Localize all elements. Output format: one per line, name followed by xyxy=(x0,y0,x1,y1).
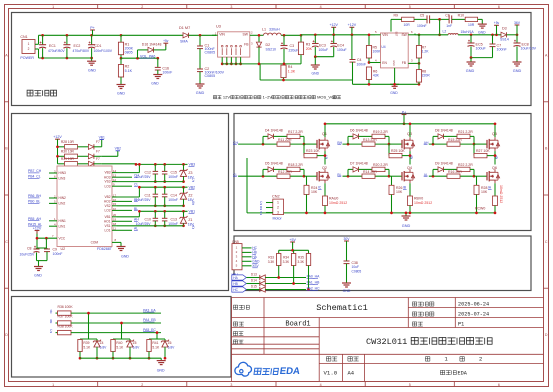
svg-text:C0805: C0805 xyxy=(205,74,216,78)
svg-text:HIN1: HIN1 xyxy=(59,219,66,223)
svg-text:1: 1 xyxy=(52,383,54,387)
svg-text:VIN: VIN xyxy=(382,33,388,37)
svg-text:GND: GND xyxy=(34,274,42,278)
svg-text:220uF: 220uF xyxy=(289,49,299,53)
svg-text:100nF: 100nF xyxy=(53,252,63,256)
svg-text:6: 6 xyxy=(498,383,500,387)
svg-text:SS14: SS14 xyxy=(500,38,509,42)
svg-text:R23 10K: R23 10K xyxy=(306,149,320,153)
svg-text:15uH/1A: 15uH/1A xyxy=(461,30,475,34)
svg-text:GND: GND xyxy=(343,289,351,293)
svg-text:+12V: +12V xyxy=(329,23,338,27)
svg-text:C0805: C0805 xyxy=(352,269,362,273)
svg-text:EC1: EC1 xyxy=(49,44,56,48)
svg-text:20K: 20K xyxy=(306,47,313,51)
svg-text:5.1K: 5.1K xyxy=(116,345,124,349)
svg-text:Z1: Z1 xyxy=(188,218,192,222)
svg-text:SMA: SMA xyxy=(180,40,188,44)
svg-text:100nF: 100nF xyxy=(168,175,178,179)
svg-text:5.1K: 5.1K xyxy=(125,69,133,73)
svg-text:VB3: VB3 xyxy=(104,171,110,175)
svg-text:GND: GND xyxy=(151,82,159,86)
svg-text:Q4: Q4 xyxy=(407,166,412,170)
svg-text:FD6288T: FD6288T xyxy=(97,247,113,251)
svg-text:D14: D14 xyxy=(251,279,257,283)
svg-text:R6: R6 xyxy=(373,69,378,73)
svg-text:5.1K: 5.1K xyxy=(152,345,160,349)
svg-text:R37 100K: R37 100K xyxy=(58,315,74,319)
svg-text:P+: P+ xyxy=(402,110,406,114)
svg-text:R9: R9 xyxy=(394,14,399,18)
svg-text:16: 16 xyxy=(113,198,117,202)
svg-text:R40: R40 xyxy=(116,341,122,345)
svg-text:GND: GND xyxy=(513,69,522,73)
svg-text:GND: GND xyxy=(466,69,475,73)
svg-text:PB5_AH: PB5_AH xyxy=(28,217,42,221)
svg-text:R12 22R: R12 22R xyxy=(278,170,292,174)
svg-text:BH: BH xyxy=(337,141,342,145)
svg-text:EDA: EDA xyxy=(279,366,301,377)
svg-text:R41: R41 xyxy=(152,341,158,345)
svg-text:D: D xyxy=(5,333,8,337)
svg-text:SW: SW xyxy=(401,33,407,37)
svg-text:470uF/80V: 470uF/80V xyxy=(48,49,65,53)
svg-text:VB2: VB2 xyxy=(115,147,121,151)
svg-text:R4: R4 xyxy=(288,65,293,69)
svg-text:CL: CL xyxy=(134,183,138,187)
svg-text:D7 1N4148: D7 1N4148 xyxy=(350,162,368,166)
svg-text:VS1: VS1 xyxy=(104,224,110,228)
svg-text:Z5: Z5 xyxy=(133,341,137,345)
svg-text:GND: GND xyxy=(390,91,398,95)
svg-text:HC: HC xyxy=(252,246,257,250)
svg-text:C13: C13 xyxy=(171,218,177,222)
svg-text:Z3: Z3 xyxy=(188,171,192,175)
svg-text:4: 4 xyxy=(320,383,322,387)
svg-text:470uF/80V: 470uF/80V xyxy=(73,49,90,53)
svg-text:RAU0: RAU0 xyxy=(329,197,338,201)
svg-text:CH: CH xyxy=(134,174,139,178)
svg-text:D5 1N4148: D5 1N4148 xyxy=(265,162,283,166)
svg-text:GND: GND xyxy=(402,224,411,228)
svg-text:LIN1: LIN1 xyxy=(59,224,66,228)
svg-text:R22 2.2R: R22 2.2R xyxy=(458,163,473,167)
svg-text:6.8V: 6.8V xyxy=(168,345,176,349)
svg-text:VB2: VB2 xyxy=(104,195,110,199)
svg-text:2025-06-24: 2025-06-24 xyxy=(458,302,489,308)
svg-text:10: 10 xyxy=(113,207,117,211)
svg-text:CN1: CN1 xyxy=(20,35,27,39)
svg-text:Z2: Z2 xyxy=(188,194,192,198)
svg-text:Z6: Z6 xyxy=(168,341,172,345)
svg-text:R33: R33 xyxy=(268,256,274,260)
svg-text:100nF/100V: 100nF/100V xyxy=(94,49,113,53)
svg-text:EN: EN xyxy=(382,61,387,65)
svg-text:VB1: VB1 xyxy=(104,215,110,219)
svg-text:3: 3 xyxy=(277,211,279,215)
svg-text:R16 22R: R16 22R xyxy=(448,170,462,174)
svg-text:C12: C12 xyxy=(145,171,151,175)
svg-text:IB: IB xyxy=(403,186,406,190)
svg-text:HO3: HO3 xyxy=(104,175,111,179)
svg-text:R35: R35 xyxy=(298,256,304,260)
svg-text:2: 2 xyxy=(141,5,143,9)
svg-text:C0805: C0805 xyxy=(205,51,216,55)
svg-text:PB6_BH: PB6_BH xyxy=(28,194,42,198)
svg-text:R10: R10 xyxy=(458,14,464,18)
svg-text:R38 100K: R38 100K xyxy=(58,324,74,328)
svg-text:43K: 43K xyxy=(373,74,380,78)
svg-text:R30 10R: R30 10R xyxy=(61,150,75,154)
svg-text:R15 22R: R15 22R xyxy=(448,138,462,142)
svg-text:CN2: CN2 xyxy=(272,195,280,199)
svg-text:R28 10R: R28 10R xyxy=(61,140,75,144)
svg-text:+12V: +12V xyxy=(53,135,62,139)
svg-text:PA2_HC: PA2_HC xyxy=(307,287,320,291)
svg-text:10uF/25V: 10uF/25V xyxy=(20,253,35,257)
svg-text:2: 2 xyxy=(28,47,30,51)
svg-text:D13: D13 xyxy=(251,273,257,277)
svg-text:Motor: Motor xyxy=(273,217,283,221)
svg-text:5: 5 xyxy=(409,5,411,9)
svg-text:Q6: Q6 xyxy=(492,166,497,170)
svg-text:LIN3: LIN3 xyxy=(59,177,66,181)
svg-text:RBV0: RBV0 xyxy=(414,197,423,201)
svg-text:6: 6 xyxy=(498,5,500,9)
svg-text:R36 100K: R36 100K xyxy=(58,305,74,309)
svg-text:R11 22R: R11 22R xyxy=(278,138,292,142)
svg-text:GND: GND xyxy=(117,92,125,96)
svg-text:BST: BST xyxy=(394,32,397,37)
svg-text:R20 2.2R: R20 2.2R xyxy=(373,163,388,167)
svg-text:Q5: Q5 xyxy=(492,132,497,136)
svg-text:VB1: VB1 xyxy=(99,135,105,139)
svg-text:100nF: 100nF xyxy=(497,48,508,52)
svg-text:C15: C15 xyxy=(171,171,177,175)
svg-text:14: 14 xyxy=(113,169,117,173)
svg-text:R17 2.2R: R17 2.2R xyxy=(288,130,303,134)
svg-text:C10: C10 xyxy=(145,218,151,222)
svg-text:LO1: LO1 xyxy=(104,228,110,232)
svg-text:36V: 36V xyxy=(514,21,521,25)
svg-text:HB: HB xyxy=(252,251,256,255)
svg-text:AL: AL xyxy=(134,227,138,231)
svg-text:R39: R39 xyxy=(83,341,89,345)
svg-text:VB1: VB1 xyxy=(189,210,196,214)
svg-text:10uF/10V: 10uF/10V xyxy=(521,47,537,51)
svg-text:30V: 30V xyxy=(343,237,350,241)
svg-text:100uF: 100uF xyxy=(476,47,487,51)
svg-text:330uH: 330uH xyxy=(269,28,280,32)
svg-text:POWER: POWER xyxy=(20,56,34,60)
svg-text:100nF: 100nF xyxy=(168,198,178,202)
svg-text:D6 1N4148: D6 1N4148 xyxy=(350,129,368,133)
svg-text:1.2K: 1.2K xyxy=(422,50,430,54)
svg-text:GND: GND xyxy=(392,60,395,66)
svg-text:LO2: LO2 xyxy=(104,209,110,213)
svg-text:C: C xyxy=(545,240,548,244)
svg-text:D15: D15 xyxy=(251,285,257,289)
svg-text:CD1: CD1 xyxy=(95,44,102,48)
svg-text:15: 15 xyxy=(113,202,117,206)
svg-text:C4: C4 xyxy=(357,58,362,62)
svg-text:CL: CL xyxy=(233,173,237,177)
svg-text:100uF: 100uF xyxy=(319,48,329,52)
svg-text:HIN3: HIN3 xyxy=(59,171,66,175)
svg-text:1~2V: 1~2V xyxy=(263,95,273,100)
svg-text:GND: GND xyxy=(312,72,320,76)
svg-text:R13 22R: R13 22R xyxy=(363,138,377,142)
svg-text:XSV: XSV xyxy=(252,264,259,268)
svg-text:17: 17 xyxy=(113,193,117,197)
svg-text:VCC: VCC xyxy=(59,236,66,240)
svg-text:PB4_CL: PB4_CL xyxy=(28,175,41,179)
svg-text:HALL: HALL xyxy=(232,272,239,276)
svg-text:R19 2.2R: R19 2.2R xyxy=(373,130,388,134)
svg-text:VOL_PA6: VOL_PA6 xyxy=(140,54,155,58)
svg-text:3.3K: 3.3K xyxy=(268,260,275,264)
svg-text:1nF: 1nF xyxy=(446,24,452,28)
svg-text:100nF: 100nF xyxy=(162,71,172,75)
svg-text:C11: C11 xyxy=(145,194,151,198)
svg-text:1: 1 xyxy=(28,42,30,46)
svg-text:D8 1N4148: D8 1N4148 xyxy=(435,129,453,133)
svg-text:EC4: EC4 xyxy=(337,43,344,47)
svg-text:R34: R34 xyxy=(283,256,289,260)
svg-text:5: 5 xyxy=(409,383,411,387)
svg-text:HC: HC xyxy=(233,288,238,292)
svg-text:U2: U2 xyxy=(61,247,66,251)
svg-text:L2: L2 xyxy=(443,30,447,34)
svg-text:U3: U3 xyxy=(216,25,221,29)
svg-text:CW32L011: CW32L011 xyxy=(366,337,407,347)
svg-text:+5V: +5V xyxy=(289,238,296,242)
svg-text:HO2: HO2 xyxy=(104,200,111,204)
svg-text:12: 12 xyxy=(113,178,117,182)
svg-text:EDA: EDA xyxy=(458,370,468,376)
svg-text:BL: BL xyxy=(134,207,138,211)
svg-text:P1: P1 xyxy=(458,322,464,328)
svg-text:2: 2 xyxy=(141,383,143,387)
svg-text:VS3: VS3 xyxy=(104,180,110,184)
svg-text:AH: AH xyxy=(424,141,429,145)
svg-text:GND: GND xyxy=(88,69,96,73)
svg-text:VIN: VIN xyxy=(219,32,225,36)
svg-text:D: D xyxy=(545,333,548,337)
svg-text:+5v: +5v xyxy=(494,21,500,25)
svg-text:Board1: Board1 xyxy=(285,320,310,328)
svg-text:+12V: +12V xyxy=(33,226,42,230)
svg-text:F7: F7 xyxy=(96,157,100,161)
svg-text:3.3K: 3.3K xyxy=(298,260,305,264)
svg-text:GND: GND xyxy=(252,260,260,264)
svg-text:D3: D3 xyxy=(502,27,507,31)
svg-text:18: 18 xyxy=(113,222,117,226)
svg-text:GND: GND xyxy=(157,369,165,373)
svg-text:1.3K: 1.3K xyxy=(288,69,296,73)
svg-text:AL: AL xyxy=(424,173,428,177)
svg-text:6.8V: 6.8V xyxy=(100,345,108,349)
svg-text:+12V: +12V xyxy=(348,23,357,27)
svg-text:PA3_EA: PA3_EA xyxy=(143,308,156,312)
svg-text:FB: FB xyxy=(244,43,249,47)
svg-text:GND: GND xyxy=(478,31,486,35)
svg-text:AH: AH xyxy=(134,218,139,222)
svg-text:220R: 220R xyxy=(422,74,431,78)
svg-text:LIN2: LIN2 xyxy=(59,202,66,206)
svg-text:1: 1 xyxy=(52,5,54,9)
svg-text:10mΩ 2512: 10mΩ 2512 xyxy=(329,201,347,205)
svg-text:U4: U4 xyxy=(381,45,385,49)
svg-text:Schematic1: Schematic1 xyxy=(316,303,368,313)
svg-text:PA5_EC: PA5_EC xyxy=(143,328,156,332)
svg-text:P+: P+ xyxy=(90,26,95,30)
svg-text:12V: 12V xyxy=(223,95,230,100)
svg-text:PA4_EB: PA4_EB xyxy=(143,318,156,322)
svg-text:D1 M7: D1 M7 xyxy=(179,26,190,30)
svg-text:D16 1N4148: D16 1N4148 xyxy=(142,42,162,46)
svg-text:10R: 10R xyxy=(404,23,411,27)
svg-text:19: 19 xyxy=(113,218,117,222)
svg-text:C3: C3 xyxy=(290,44,295,48)
svg-text:11: 11 xyxy=(113,227,116,231)
svg-text:PB0_BL: PB0_BL xyxy=(28,200,41,204)
svg-text:10mΩ 2512: 10mΩ 2512 xyxy=(414,201,432,205)
svg-text:C5: C5 xyxy=(420,14,425,18)
svg-text:0805: 0805 xyxy=(125,51,133,55)
svg-text:10K: 10K xyxy=(311,190,318,194)
svg-text:VS2: VS2 xyxy=(104,204,110,208)
svg-text:6.8V: 6.8V xyxy=(133,345,141,349)
svg-text:PB7_CH: PB7_CH xyxy=(28,169,42,173)
svg-text:V1.0: V1.0 xyxy=(324,370,338,377)
svg-text:R3: R3 xyxy=(306,42,311,46)
svg-text:R21 2.2R: R21 2.2R xyxy=(458,130,473,134)
svg-text:EC2: EC2 xyxy=(74,44,81,48)
svg-text:Q3: Q3 xyxy=(407,132,412,136)
svg-text:COM: COM xyxy=(91,241,99,245)
svg-text:R31 10R: R31 10R xyxy=(61,157,75,161)
svg-text:SS210: SS210 xyxy=(266,47,277,51)
svg-text:HB: HB xyxy=(233,282,237,286)
svg-text:3: 3 xyxy=(230,383,232,387)
svg-text:LO3: LO3 xyxy=(104,184,110,188)
svg-text:1: 1 xyxy=(277,201,279,205)
svg-text:RCW0: RCW0 xyxy=(475,207,485,211)
svg-text:HIN2: HIN2 xyxy=(59,196,66,200)
svg-text:C8: C8 xyxy=(27,247,32,251)
svg-text:3.3K: 3.3K xyxy=(283,260,290,264)
svg-text:3: 3 xyxy=(230,5,232,9)
svg-text:A4: A4 xyxy=(348,370,355,377)
svg-text:2025-07-24: 2025-07-24 xyxy=(458,312,489,318)
svg-text:L1: L1 xyxy=(262,28,266,32)
svg-text:100nF: 100nF xyxy=(417,24,427,28)
svg-text:R8: R8 xyxy=(422,69,427,73)
svg-text:Q1: Q1 xyxy=(322,132,327,136)
svg-text:10K: 10K xyxy=(396,190,403,194)
svg-text:GND: GND xyxy=(196,91,205,95)
svg-text:Z4: Z4 xyxy=(100,341,104,345)
svg-text:D4 1N4148: D4 1N4148 xyxy=(265,129,283,133)
svg-text:D2: D2 xyxy=(266,43,271,47)
svg-text:F7: F7 xyxy=(96,150,100,154)
svg-text:13: 13 xyxy=(113,174,117,178)
svg-text:HO1: HO1 xyxy=(104,219,111,223)
svg-text:2: 2 xyxy=(277,206,279,210)
svg-text:+5v: +5v xyxy=(163,39,169,43)
svg-text:BH: BH xyxy=(134,198,139,202)
svg-text:R14 22R: R14 22R xyxy=(363,170,377,174)
svg-text:4: 4 xyxy=(320,5,322,9)
svg-text:GND: GND xyxy=(121,255,129,259)
svg-text:10mΩ 2512: 10mΩ 2512 xyxy=(499,185,503,203)
svg-text:C9: C9 xyxy=(53,248,58,252)
svg-text:C: C xyxy=(5,240,8,244)
svg-text:CH: CH xyxy=(233,141,238,145)
svg-text:C14: C14 xyxy=(171,194,177,198)
svg-text:2: 2 xyxy=(479,356,482,363)
svg-text:10R: 10R xyxy=(468,23,475,27)
svg-text:Q2: Q2 xyxy=(322,166,327,170)
svg-text:BL: BL xyxy=(337,173,341,177)
svg-text:100uF: 100uF xyxy=(337,48,347,52)
svg-text:5.1K: 5.1K xyxy=(83,345,91,349)
svg-text:EC3: EC3 xyxy=(319,43,326,47)
svg-text:R27 10K: R27 10K xyxy=(476,149,490,153)
svg-text:VB2: VB2 xyxy=(189,185,196,189)
svg-text:SW: SW xyxy=(243,32,249,36)
svg-text:F7: F7 xyxy=(96,140,100,144)
svg-text:VB3: VB3 xyxy=(189,163,196,167)
svg-text:R18 2.2R: R18 2.2R xyxy=(288,163,303,167)
svg-text:D9 1N4148: D9 1N4148 xyxy=(435,162,453,166)
svg-text:R25 10K: R25 10K xyxy=(391,149,405,153)
svg-text:10K: 10K xyxy=(481,190,488,194)
svg-text:100nF: 100nF xyxy=(357,62,367,66)
svg-text:20: 20 xyxy=(113,213,117,217)
svg-text:100K: 100K xyxy=(373,50,382,54)
